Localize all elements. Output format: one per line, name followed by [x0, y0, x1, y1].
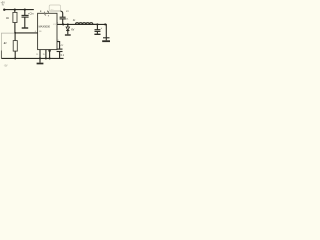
switch box SW1 [49, 5, 60, 11]
node C4 top junction [24, 8, 26, 10]
wire output rail [57, 24, 106, 37]
node Vdd terminal dot [3, 9, 5, 11]
svg-text:o s: o s [51, 9, 54, 11]
svg-text:MAX5000: MAX5000 [39, 25, 51, 29]
svg-text:11: 11 [36, 54, 38, 56]
svg-text:+Cin: +Cin [28, 12, 34, 16]
svg-text:C1: C1 [61, 44, 64, 47]
svg-text:L1: L1 [72, 19, 76, 22]
wire R2 bottom [14, 51, 16, 58]
wire R1 top stub [14, 10, 16, 13]
pin tick U1 top [43, 12, 45, 15]
resistor R2 [13, 41, 17, 52]
node bottom pin 3 junction [49, 57, 51, 59]
ground under C5 [94, 33, 100, 35]
node C6 junction [104, 23, 106, 25]
wire R2 top stub [14, 33, 16, 41]
ground under D1 [65, 34, 71, 36]
node R2 bottom junction [14, 57, 16, 59]
wire faint left feedback upper [1, 33, 15, 50]
node R1 top junction [14, 8, 16, 10]
wire IC bottom pin 2 [45, 50, 47, 59]
capacitor C6 [103, 37, 110, 39]
svg-text:6V: 6V [71, 29, 74, 32]
wire box to IC pin [47, 11, 49, 14]
node bottom pin 1 junction [39, 57, 41, 59]
wire faint left feedback lower [0, 51, 2, 59]
wire IC bottom pin 1 [39, 50, 41, 59]
node C5 junction [96, 23, 98, 25]
pin number marks U1 top [40, 11, 41, 12]
resistor R1 [13, 12, 17, 22]
node bottom pin 2 junction [45, 57, 47, 59]
IC U1 MAX5000 [38, 13, 57, 49]
svg-text:4: 4 [35, 31, 36, 33]
node R1/R2 junction [14, 32, 16, 34]
svg-text:R1: R1 [5, 17, 10, 20]
ground under C4 [22, 27, 29, 29]
capacitor C5 [96, 24, 98, 29]
svg-text:R2: R2 [3, 42, 8, 45]
capacitor C4 [24, 10, 26, 15]
svg-text:15: 15 [43, 54, 45, 56]
capacitor C1 [57, 42, 60, 49]
wire top rail [4, 9, 34, 11]
svg-text:-5V: -5V [4, 65, 8, 68]
wire bottom rail [1, 57, 63, 59]
node C2 junction [62, 23, 64, 25]
wire junction to IC pin [15, 32, 37, 34]
wire IC bottom pin 3 [49, 50, 50, 51]
capacitor C2 [60, 11, 62, 17]
node D1 junction [67, 23, 69, 25]
wire R1 bottom [14, 23, 16, 33]
ground under IC [39, 58, 41, 62]
zener D1 [67, 24, 69, 27]
ground under C6 [102, 40, 110, 42]
